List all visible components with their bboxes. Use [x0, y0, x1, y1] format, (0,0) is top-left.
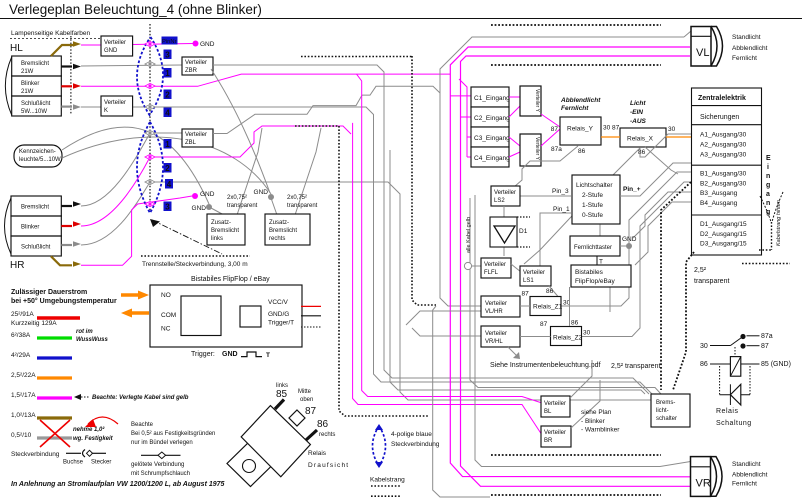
svg-text:2: 2 [165, 164, 170, 173]
svg-text:FLFL: FLFL [484, 270, 499, 276]
arrow brown [73, 41, 81, 47]
svg-text:VR: VR [696, 478, 711, 490]
svg-text:GND: GND [200, 41, 215, 48]
blue connector lens bottom [373, 426, 386, 466]
dotted rope bottom VR 2 [491, 494, 661, 496]
svg-text:NC: NC [161, 326, 171, 333]
wire gray into VRHL [412, 328, 481, 336]
svg-text:3: 3 [165, 203, 170, 212]
wire gray RelaisX 86 right [645, 147, 678, 174]
wire gray A2 fan [599, 225, 601, 237]
relay pin 86 stub [306, 430, 317, 440]
box C4 Eingang [471, 147, 509, 167]
svg-text:Mitte: Mitte [298, 389, 312, 395]
svg-text:g: g [766, 182, 770, 189]
svg-text:VL: VL [696, 47, 709, 59]
svg-text:Relais: Relais [716, 408, 738, 415]
trennstelle dotted line [141, 255, 250, 257]
svg-text:87a: 87a [761, 333, 773, 340]
svg-text:Pin_1: Pin_1 [553, 206, 570, 213]
svg-text:VCC/V: VCC/V [268, 299, 289, 306]
svg-text:Zulässiger Dauerstrom: Zulässiger Dauerstrom [11, 289, 87, 296]
svg-text:6²/38A: 6²/38A [11, 332, 31, 339]
wire magenta HL GND [81, 44, 101, 46]
box Bistabiles FlipFlop eBay small [571, 265, 631, 287]
relay circuit dotted link [734, 347, 736, 356]
svg-text:ZBL: ZBL [185, 140, 197, 146]
cable lens chain 2 [137, 122, 163, 213]
svg-text:Bremslicht: Bremslicht [269, 228, 297, 234]
relay top view body [241, 406, 310, 477]
dotted top horizontal [301, 56, 412, 58]
svg-text:GND/G: GND/G [268, 311, 289, 318]
wire gray ZBL to channel [213, 86, 440, 133]
svg-text:i: i [767, 164, 769, 171]
svg-text:30 87: 30 87 [603, 125, 620, 132]
relay circuit diode [720, 394, 750, 396]
relay box Relais_Z1 [530, 297, 561, 316]
svg-text:GND: GND [254, 189, 269, 196]
wire magenta stub C4 [467, 156, 471, 158]
svg-text:Bei 0,5² aus Festigkeitsgründe: Bei 0,5² aus Festigkeitsgründen [131, 431, 215, 437]
dotted channel border right [412, 56, 436, 305]
svg-text:Schlußlicht: Schlußlicht [21, 245, 51, 251]
diode D1 [503, 206, 505, 256]
red X [40, 420, 70, 447]
wire gray ZBR second [211, 69, 270, 193]
svg-text:87: 87 [522, 291, 530, 298]
wire gray to Verteiler ZBR [81, 65, 182, 66]
wire gray Z2 86 up [569, 287, 571, 326]
wire magenta V1 to RelaisY 87 [541, 114, 560, 127]
svg-text:Licht: Licht [630, 100, 646, 107]
svg-text:nehme 1,0²: nehme 1,0² [73, 426, 105, 433]
svg-text:87a: 87a [551, 146, 562, 153]
svg-text:gelötete Verbindung: gelötete Verbindung [131, 462, 184, 468]
relay circuit dotted drops [719, 366, 721, 395]
orange arrow COM [132, 311, 149, 314]
wire magenta C column [459, 79, 467, 157]
relay circuit contact 87a [740, 334, 745, 339]
wire magenta V2 to RelaisY 87a [541, 129, 560, 146]
verteiler ZBR box [182, 57, 213, 75]
dotted arrow beachte [75, 396, 90, 398]
wire magenta channel to Verteiler BR [353, 123, 542, 435]
svg-text:Kennzeichen-: Kennzeichen- [19, 149, 56, 155]
verteiler BL box [541, 396, 570, 417]
lamp box HL Schlusslicht [12, 96, 62, 116]
svg-text:PinNr: PinNr [162, 39, 177, 45]
T node [596, 256, 598, 265]
svg-text:Verteiler: Verteiler [544, 430, 566, 436]
svg-text:LS1: LS1 [523, 278, 534, 284]
svg-text:4²/29A: 4²/29A [11, 352, 31, 359]
wire magenta C1 to V1 [509, 96, 520, 98]
lamp box HL Blinker 21W [12, 76, 62, 96]
svg-text:21W: 21W [21, 89, 34, 95]
svg-text:rechts: rechts [269, 236, 285, 242]
wire VLHR to Z1 [520, 305, 530, 307]
node GND HR [192, 193, 198, 199]
svg-text:Brems-: Brems- [656, 400, 675, 406]
svg-text:nur im Bündel verlegen: nur im Bündel verlegen [131, 440, 193, 446]
svg-text:87: 87 [551, 126, 559, 133]
wire magenta channel to Verteiler BL [357, 74, 543, 403]
svg-text:LS2: LS2 [494, 198, 505, 204]
svg-text:Verlegeplan Beleuchtung_4 (ohn: Verlegeplan Beleuchtung_4 (ohne Blinker) [9, 2, 262, 17]
svg-text:Verteiler: Verteiler [544, 401, 566, 407]
svg-text:2,5²/22A: 2,5²/22A [11, 372, 36, 379]
relay box Relais_Y [560, 117, 601, 145]
svg-text:25²/91A: 25²/91A [11, 311, 34, 318]
svg-text:Fernlicht: Fernlicht [561, 105, 589, 112]
wire gray VL standlicht long [440, 31, 691, 306]
svg-text:Verteiler: Verteiler [104, 100, 126, 106]
box Lichtschalter [572, 175, 620, 224]
svg-text:85 (GND): 85 (GND) [761, 361, 791, 368]
svg-text:transparent: transparent [287, 203, 318, 209]
dotted rope top VL 1 [491, 24, 661, 26]
svg-text:B4_Ausgang: B4_Ausgang [700, 200, 738, 207]
svg-text:Standlicht: Standlicht [732, 461, 761, 468]
svg-text:1-Stufe: 1-Stufe [582, 202, 603, 209]
svg-text:Pin_+: Pin_+ [623, 186, 641, 193]
box Zusatz-Bremslicht rechts [265, 214, 310, 245]
svg-text:Zusatz-: Zusatz- [211, 220, 231, 226]
svg-text:Trennstelle/Steckverbindung, 3: Trennstelle/Steckverbindung, 3,00 m [142, 261, 248, 268]
arrow red HR Blinker [61, 225, 72, 227]
box FlipFlop U1 [150, 285, 302, 347]
small rotated verteiler box 1 [520, 86, 541, 116]
svg-text:4: 4 [165, 109, 170, 118]
svg-text:C2_Eingang: C2_Eingang [474, 115, 510, 122]
verteiler ZBL box [182, 129, 213, 147]
verteiler GND box [101, 36, 133, 56]
crossing connector symbols chain1 [145, 41, 155, 206]
svg-text:Zusatz-: Zusatz- [269, 220, 289, 226]
trennstelle arrow dashdot [152, 220, 222, 254]
wire magenta stub C2 [461, 116, 472, 118]
wire gray RelaisX 86 down [524, 148, 640, 264]
wire gray HR Schluss to channel [81, 182, 651, 400]
svg-text:WussWuss: WussWuss [76, 337, 108, 343]
wire gray RelaisY 86 down [514, 146, 578, 187]
svg-text:Lampenseitige Kabelfarben: Lampenseitige Kabelfarben [11, 30, 91, 37]
svg-text:Trigger:: Trigger: [191, 351, 215, 358]
svg-text:Beachte: Verlegte Kabel sind g: Beachte: Verlegte Kabel sind gelb [92, 395, 189, 401]
box Bremslichtschalter [651, 394, 690, 427]
svg-text:2x0,75²: 2x0,75² [227, 195, 247, 201]
red curved arrow [88, 417, 118, 424]
wire magenta stub C3 [467, 136, 471, 138]
verteiler VLHR box [481, 296, 520, 317]
svg-text:K: K [104, 108, 108, 114]
svg-text:In Anlehnung an Stromlaufplan: In Anlehnung an Stromlaufplan VW 1200/12… [11, 481, 225, 488]
node circle FLFL [464, 262, 471, 269]
wire brown HR bottom [51, 256, 72, 265]
svg-text:GND: GND [192, 205, 207, 212]
wire magenta VL fernlicht long [461, 56, 691, 486]
headlight VR [711, 457, 723, 497]
wire gray fan B4 to FlipFlop [635, 202, 691, 265]
svg-text:Bistabiles: Bistabiles [575, 269, 604, 276]
svg-text:1,5²/17A: 1,5²/17A [11, 392, 36, 399]
svg-text:GND: GND [222, 351, 238, 358]
svg-text:B1_Ausgang/30: B1_Ausgang/30 [700, 171, 747, 178]
svg-text:E: E [766, 155, 771, 162]
wire brown HL top [51, 45, 73, 56]
svg-text:1: 1 [165, 69, 170, 78]
lamp box HR Bremslicht [11, 196, 61, 216]
box Zusatz-Bremslicht links [207, 214, 245, 245]
arrow red HL Blinker [61, 85, 72, 87]
svg-text:86: 86 [546, 288, 554, 295]
wire magenta C2 to V1 [509, 106, 520, 117]
svg-text:HL: HL [10, 43, 23, 54]
wire red VCC out [301, 305, 321, 307]
wire Zusatz links up [211, 208, 224, 215]
lamp box HR Schlusslicht [11, 236, 61, 256]
svg-text:GND: GND [200, 191, 215, 198]
svg-text:Standlicht: Standlicht [732, 34, 761, 41]
wire magenta HL Blinker to C-inputs [81, 74, 450, 86]
svg-text:Relais_X: Relais_X [627, 136, 654, 143]
relay circuit blade [731, 337, 744, 346]
wire gray fan B3 to Fernlichttaster [633, 192, 691, 238]
svg-text:oben: oben [300, 397, 313, 403]
wire gray lower left vertical [433, 306, 490, 497]
svg-text:Blinker: Blinker [21, 81, 39, 87]
svg-text:licht-: licht- [656, 408, 669, 414]
svg-text:Fernlicht: Fernlicht [732, 481, 757, 488]
svg-text:rot im: rot im [76, 329, 93, 335]
wire gray LS1 down [549, 286, 558, 297]
svg-text:mit Schrumpfschlauch: mit Schrumpfschlauch [131, 471, 190, 477]
wire FLFL to LS1 [511, 264, 521, 272]
wire Zusatz rechts up [271, 198, 277, 215]
svg-text:leuchte/5...10W: leuchte/5...10W [19, 157, 61, 163]
wire black GND out [301, 315, 321, 317]
svg-text:2,5² transparent: 2,5² transparent [611, 363, 660, 370]
svg-text:A2_Ausgang/30: A2_Ausgang/30 [700, 142, 747, 149]
svg-text:D2_Ausgang/15: D2_Ausgang/15 [700, 231, 747, 238]
svg-text:transparent: transparent [227, 203, 258, 209]
svg-text:Fernlichttaster: Fernlichttaster [574, 245, 612, 251]
svg-text:Siehe Instrumentenbeleuchtung.: Siehe Instrumentenbeleuchtung.pdf [490, 362, 601, 369]
node GND top [193, 41, 199, 47]
svg-text:n: n [766, 200, 770, 207]
svg-text:Blinker: Blinker [21, 225, 39, 231]
wire orange RelaisX to Zentralelektrik [666, 136, 692, 138]
arrow black HR Bremslicht [61, 205, 72, 207]
svg-text:86: 86 [638, 149, 646, 156]
svg-text:Fernlicht: Fernlicht [732, 55, 757, 62]
box Fernlichttaster [570, 236, 620, 256]
svg-text:D1: D1 [519, 228, 528, 235]
wire gray LS2 to Lichtschalter Pin_3 [520, 195, 571, 197]
svg-text:0,5²/10: 0,5²/10 [11, 432, 32, 439]
dotted kabelstrang lines [371, 485, 401, 487]
dotted rope to Bremslichtschalter 1 [661, 182, 691, 390]
svg-text:2,5²: 2,5² [694, 267, 707, 274]
pin tags chain2 [164, 139, 172, 149]
verteiler LS2 box [491, 186, 520, 206]
svg-text:86: 86 [571, 320, 579, 327]
svg-text:Verteiler Y: Verteiler Y [534, 137, 540, 161]
svg-text:5W...10W: 5W...10W [21, 109, 47, 115]
svg-text:Relais: Relais [308, 450, 327, 457]
svg-text:siehe Plan: siehe Plan [581, 409, 612, 416]
svg-text:Verteiler: Verteiler [485, 301, 507, 307]
svg-text:wg. Festigkeit: wg. Festigkeit [73, 436, 114, 442]
dotted channel border left [295, 126, 429, 416]
svg-text:C4_Eingang: C4_Eingang [474, 155, 510, 162]
svg-text:Steckverbindung: Steckverbindung [391, 441, 440, 448]
wire magenta VL abblendlicht long [450, 47, 690, 477]
relay box Relais_X [620, 128, 666, 147]
svg-text:Verteiler: Verteiler [484, 262, 506, 268]
wire gray Pin_1 [540, 213, 571, 267]
wire dotted trigger out [301, 326, 321, 328]
funnel dashed right [760, 196, 771, 222]
wire gray BR up [571, 380, 600, 428]
svg-text:1: 1 [165, 140, 170, 149]
verteiler LS1 box [520, 266, 551, 286]
svg-text:86: 86 [578, 148, 586, 155]
svg-text:87: 87 [305, 406, 317, 417]
svg-text:B2_Ausgang/30: B2_Ausgang/30 [700, 181, 747, 188]
relay O mark [243, 460, 256, 473]
svg-text:alle Kabel gelb: alle Kabel gelb [466, 217, 472, 253]
svg-text:VL/HR: VL/HR [485, 309, 503, 315]
lamp box Kennzeichenleuchte [14, 145, 62, 167]
svg-text:Verteiler: Verteiler [523, 270, 545, 276]
wire into VLHR second [406, 311, 481, 325]
dotted rope to Bremslichtschalter 2 [673, 252, 694, 390]
relay box Relais_Z2 [551, 327, 582, 346]
svg-text:Abblendlicht: Abblendlicht [732, 45, 768, 52]
svg-text:30: 30 [668, 126, 676, 133]
svg-text:4: 4 [167, 180, 172, 189]
svg-text:schalter: schalter [656, 416, 677, 422]
Zentralelektrik box [692, 88, 762, 255]
svg-text:Schlußlicht: Schlußlicht [21, 101, 51, 107]
wire magenta C4 to V2 [509, 152, 520, 157]
relay circuit contact 87 [740, 343, 745, 348]
wire gray vert x475 [475, 195, 691, 467]
svg-text:GND: GND [104, 48, 118, 54]
svg-text:Pin_3: Pin_3 [552, 188, 569, 195]
svg-text:- Blinker: - Blinker [581, 418, 606, 425]
wire magenta C3 to V2 [509, 137, 520, 146]
svg-text:B3_Ausgang: B3_Ausgang [700, 190, 738, 197]
svg-text:Kabelstrang: Kabelstrang [370, 477, 405, 484]
svg-text:Trigger/T: Trigger/T [268, 320, 294, 327]
svg-text:C1_Eingang: C1_Eingang [474, 95, 510, 102]
node GND gray left [206, 204, 212, 210]
svg-text:2-Stufe: 2-Stufe [582, 192, 603, 199]
PinNr tag [162, 37, 178, 45]
small rotated verteiler box 2 [520, 134, 541, 166]
svg-text:1,0²/13A: 1,0²/13A [11, 412, 36, 419]
dotted rope bottom VR 1 [491, 454, 661, 456]
wire magenta HR Blinker to channel [81, 126, 351, 226]
svg-text:- Warnblinker: - Warnblinker [581, 427, 620, 434]
brace HL [5, 57, 11, 115]
verteiler VRHL box [481, 326, 520, 347]
svg-text:NO: NO [161, 292, 171, 299]
svg-text:Verteiler: Verteiler [485, 331, 507, 337]
svg-text:21W: 21W [21, 69, 34, 75]
box C2 Eingang [471, 107, 509, 127]
wire gray ZBR to channel [213, 65, 649, 394]
wire gray channel x390 [390, 150, 645, 394]
svg-text:T: T [266, 352, 270, 359]
node GND gray right [268, 194, 274, 200]
wire gray Kennzeichen curve 1 [62, 127, 209, 204]
svg-text:C3_Eingang: C3_Eingang [474, 135, 510, 142]
title underline [0, 18, 802, 20]
svg-text:n: n [766, 173, 770, 180]
svg-text:Beachte: Beachte [131, 422, 154, 428]
svg-text:Verteiler: Verteiler [185, 60, 207, 66]
label Eingang vertical [766, 155, 771, 216]
lamp box HR Blinker [11, 216, 61, 236]
wire gray Verteiler K to channel [133, 107, 652, 394]
wire VRHL to Z2 [520, 336, 551, 338]
orange arrow NO [121, 293, 138, 296]
svg-text:85: 85 [276, 389, 288, 400]
svg-text:rechts: rechts [319, 432, 335, 438]
svg-text:2: 2 [165, 91, 170, 100]
dotted rope top VL 2 [491, 64, 661, 66]
dotted trunk vertical line [149, 24, 151, 212]
wire gray BL up [570, 360, 592, 398]
svg-text:Buchse: Buchse [63, 460, 84, 466]
svg-text:BL: BL [544, 409, 552, 415]
svg-text:Schaltung: Schaltung [716, 420, 752, 427]
arrow black HL Bremslicht [61, 65, 72, 67]
svg-text:Verteiler: Verteiler [185, 132, 207, 138]
box C3 Eingang [471, 127, 509, 147]
svg-text:Bremslicht: Bremslicht [21, 61, 49, 67]
brace HR [5, 198, 12, 254]
svg-text:GND: GND [622, 236, 637, 243]
svg-text:87: 87 [761, 343, 769, 350]
svg-text:BR: BR [544, 438, 553, 444]
svg-text:Relais_Y: Relais_Y [567, 126, 594, 133]
pin tags chain1 [164, 50, 174, 212]
relay pin 85 stub [275, 400, 284, 410]
wire gray 2,5 to Bremslichtschalter [470, 198, 661, 394]
svg-text:a: a [766, 191, 770, 198]
svg-text:D3_Ausgang/15: D3_Ausgang/15 [700, 241, 747, 248]
arrow gray HL Schlusslicht [61, 105, 72, 107]
svg-text:Verteiler: Verteiler [494, 190, 516, 196]
svg-text:30: 30 [583, 330, 591, 337]
svg-text:Bremslicht: Bremslicht [21, 205, 49, 211]
svg-text:Verteiler: Verteiler [104, 40, 126, 46]
svg-text:FlipFlop/eBay: FlipFlop/eBay [575, 278, 615, 285]
svg-text:Abblendlicht: Abblendlicht [732, 472, 768, 479]
arrow gray HR Schlusslicht [61, 244, 72, 246]
relay top view small square [227, 441, 274, 487]
svg-text:4-polige blaue: 4-polige blaue [391, 431, 432, 438]
svg-text:ZBR: ZBR [185, 68, 198, 74]
wire gray fan B1 to RelaisZ1 [561, 172, 691, 306]
relay pin 87 tab [289, 410, 305, 426]
svg-text:Bremslicht: Bremslicht [211, 228, 239, 234]
